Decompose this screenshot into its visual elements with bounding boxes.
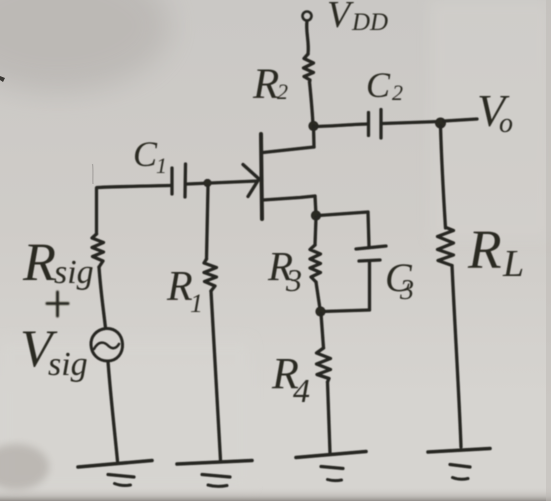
ground [296,452,366,481]
node A junction [309,121,318,130]
wire [307,21,309,54]
label C1 [133,134,167,178]
svg-text:2: 2 [277,79,288,104]
wire [312,126,316,147]
wire [452,266,461,448]
svg-text:V: V [327,0,354,36]
node C junction [311,211,320,220]
label RL [467,219,524,285]
svg-text:C: C [133,134,158,174]
wire [319,212,369,216]
wire [211,291,221,460]
wire [317,124,367,127]
label C2 [366,65,403,105]
svg-text:4: 4 [293,373,310,410]
shadow top-left [0,0,170,92]
wire [99,267,106,328]
resistor R3 [310,245,321,282]
capacitor C2 [369,110,382,139]
ground [428,449,490,480]
node VDD terminal [303,12,312,21]
label Rsig [22,232,94,292]
label R2 [252,61,288,108]
wire [316,282,320,309]
smudge bottom-left [0,444,49,490]
svg-text:3: 3 [285,262,302,298]
wire [315,196,316,215]
resistor R4 [317,348,331,382]
svg-text:o: o [499,108,513,139]
wire [108,362,118,462]
transistor Q1 (JFET) [243,134,315,219]
svg-text:DD: DD [351,9,388,36]
svg-text:sig: sig [48,346,88,383]
label plus sign [47,292,68,316]
label R3 [267,243,302,298]
wire [322,310,370,312]
node G junction [204,179,211,186]
svg-text:L: L [502,243,524,285]
wire [188,181,258,184]
svg-text:C: C [366,65,391,105]
wire [321,314,324,349]
resistor R2 [304,54,314,82]
label R1 [166,264,203,318]
wire [368,212,369,246]
label C3 [385,255,414,306]
svg-text:sig: sig [54,254,94,291]
svg-text:R: R [252,61,279,108]
svg-text:R: R [166,264,193,310]
label Vo [477,85,513,139]
resistor R1 [204,259,217,291]
faint pencil tick [92,164,95,184]
wire [207,186,209,259]
capacitor C1 [172,164,186,197]
svg-text:3: 3 [399,275,414,306]
label Vsig underline [59,378,78,381]
ground [78,461,152,486]
stray ink mark left edge [0,76,5,82]
wire [315,218,316,246]
svg-text:2: 2 [392,80,403,105]
node B junction [436,118,446,128]
wire [444,119,477,121]
source Vsig [91,328,123,361]
label R4 [271,349,310,410]
wire [328,382,331,453]
wire [383,122,440,124]
svg-text:R: R [22,232,56,292]
wire [368,261,371,310]
capacitor C3 [356,246,386,261]
wire [441,126,446,228]
svg-text:R: R [467,219,502,280]
label Vsig [20,320,88,383]
wire [97,186,170,188]
svg-text:1: 1 [156,153,167,178]
node D junction [316,307,325,316]
wire [310,82,314,126]
resistor RL [438,228,454,266]
ground [177,461,252,487]
svg-text:1: 1 [190,289,203,318]
resistor Rsig [92,234,104,267]
label VDD [327,0,388,36]
wire [95,188,98,234]
